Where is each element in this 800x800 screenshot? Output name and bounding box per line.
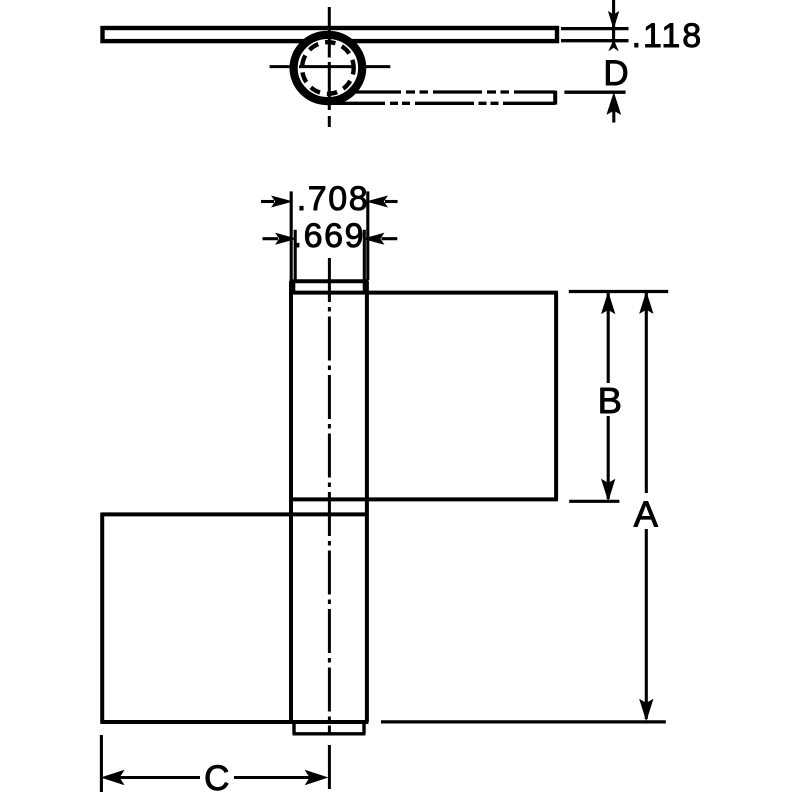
barrel right outer edge (front view) (365, 281, 369, 722)
barrel top band verticals (294, 281, 365, 293)
dimension A lower stem and down arrowhead (645, 529, 648, 719)
dimension .669 right arrow (382, 237, 398, 240)
dimension D up arrowhead (607, 94, 620, 114)
dimension B/A top extension line (569, 290, 668, 293)
left leaf bottom edge (101, 720, 369, 724)
svg-text:B: B (598, 380, 622, 421)
dimension .669 left arrow (263, 237, 279, 240)
bottom leaf end cap (553, 91, 557, 105)
svg-text:C: C (204, 759, 229, 798)
dimension C left arrow (102, 771, 123, 785)
svg-text:D: D (603, 54, 628, 93)
barrel bottom band verticals (294, 722, 364, 734)
hinge pin hole (hidden dashed circle) (302, 42, 354, 94)
left leaf top edge (101, 512, 369, 516)
svg-text:.118: .118 (632, 17, 704, 55)
right leaf bottom edge (290, 497, 558, 501)
dimension .118 leader stem (612, 0, 615, 48)
dimension A upper stem and up arrowhead (645, 293, 648, 493)
dimension C right arrow (234, 776, 312, 779)
left leaf left edge (100, 513, 104, 724)
dimension D extension line (564, 91, 625, 94)
dimension A bottom extension line (381, 720, 666, 723)
barrel top cap line (290, 279, 369, 283)
centerline dash inside bottom band (328, 726, 331, 733)
dimension B lower stem and down arrowhead (607, 416, 610, 499)
svg-text:A: A (634, 493, 659, 534)
bottom leaf (side view) bottom edge, phantom line (330, 102, 555, 105)
dimension B upper stem and up arrowhead (607, 293, 610, 383)
dimension B bottom extension line (569, 500, 619, 503)
right leaf top edge (290, 291, 558, 295)
dimension .118 up arrowhead (610, 41, 618, 50)
dimension .708 extension lines (291, 191, 368, 280)
dimension .118 down arrowhead (609, 12, 619, 28)
dimension D stem (612, 109, 615, 123)
centerline extension to C dimension (328, 745, 331, 789)
svg-text:.669: .669 (293, 217, 366, 255)
dimension .118 extension lines (561, 29, 629, 41)
right leaf right edge (554, 291, 558, 501)
svg-text:.708: .708 (297, 180, 370, 218)
dimension .708 left arrow (261, 200, 274, 203)
vertical centerline through knuckle (328, 7, 331, 127)
bottom leaf (side view) top edge, phantom line (320, 90, 555, 93)
dimension .708 right arrow (385, 200, 398, 203)
knuckle barrel (side view circle) (294, 35, 363, 101)
front view vertical centerline (328, 258, 331, 722)
dimension .669 extension lines (295, 230, 364, 280)
barrel bottom band bottom line (293, 732, 366, 735)
horizontal centerline through knuckle (270, 65, 391, 68)
top leaf (side view plate) (103, 28, 558, 41)
barrel left outer edge (front view) (289, 281, 293, 722)
dimension C left extension line (100, 735, 103, 792)
